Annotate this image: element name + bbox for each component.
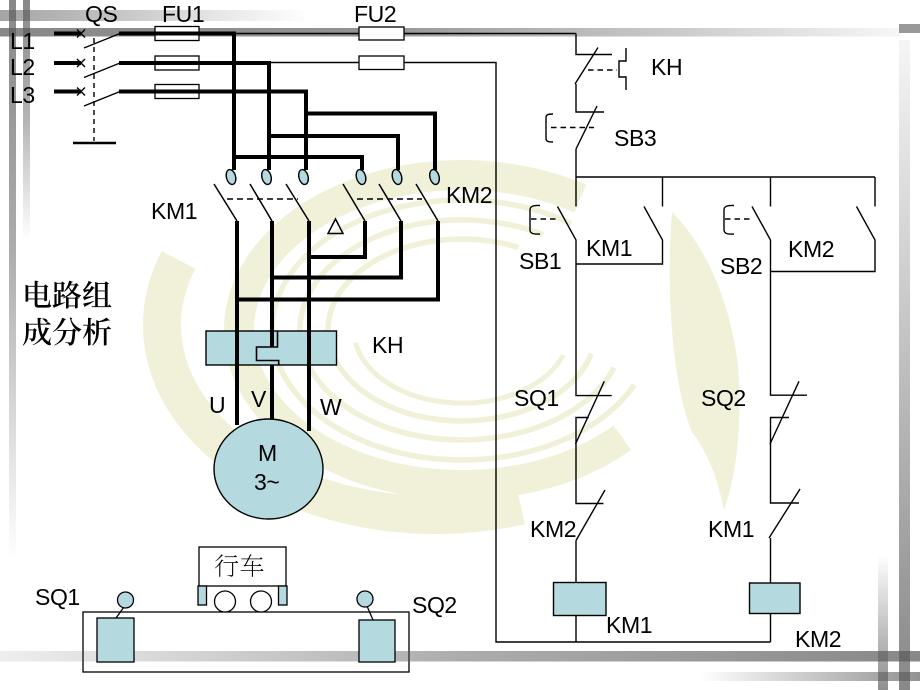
svg-text:KM1: KM1 (151, 198, 197, 224)
svg-text:3~: 3~ (254, 469, 279, 495)
svg-text:KM2: KM2 (530, 516, 576, 542)
svg-text:FU1: FU1 (162, 1, 204, 27)
svg-text:QS: QS (85, 1, 117, 27)
svg-text:SB1: SB1 (519, 248, 561, 274)
svg-text:M: M (258, 440, 277, 466)
svg-text:SQ1: SQ1 (35, 584, 80, 610)
svg-text:KM1: KM1 (708, 516, 754, 542)
svg-text:SQ2: SQ2 (412, 592, 457, 618)
svg-text:KM2: KM2 (795, 626, 841, 652)
svg-text:SB3: SB3 (614, 125, 656, 151)
svg-text:KM2: KM2 (446, 182, 492, 208)
svg-text:KM1: KM1 (606, 612, 652, 638)
svg-text:KH: KH (372, 332, 403, 358)
svg-text:KM2: KM2 (788, 236, 834, 262)
svg-text:KH: KH (651, 54, 682, 80)
svg-text:V: V (251, 386, 267, 412)
svg-text:FU2: FU2 (354, 1, 396, 27)
svg-text:L1: L1 (10, 28, 35, 54)
svg-text:SQ2: SQ2 (701, 385, 746, 411)
svg-text:W: W (320, 394, 342, 420)
svg-text:L2: L2 (10, 54, 35, 80)
svg-text:SB2: SB2 (720, 253, 762, 279)
svg-text:L3: L3 (10, 82, 35, 108)
svg-text:U: U (209, 392, 225, 418)
svg-text:SQ1: SQ1 (514, 385, 559, 411)
svg-text:KM1: KM1 (586, 235, 632, 261)
